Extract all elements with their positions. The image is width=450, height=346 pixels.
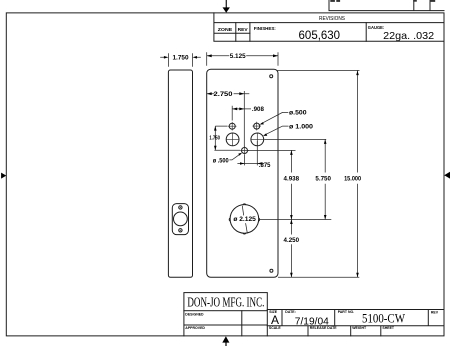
svg-text:ZONE: ZONE — [218, 27, 233, 32]
svg-text:PART NO.: PART NO. — [338, 310, 354, 314]
latch bore circle — [174, 212, 188, 226]
dimension 4.938 — [290, 150, 292, 219]
svg-text:SCALE: SCALE — [269, 326, 282, 330]
svg-text:605,630: 605,630 — [299, 28, 341, 42]
svg-text:WEIGHT: WEIGHT — [352, 326, 367, 330]
svg-text:5.750: 5.750 — [315, 176, 331, 183]
dimension 2.750 — [207, 91, 250, 147]
svg-text:.875: .875 — [259, 162, 271, 169]
svg-text:DATE:: DATE: — [285, 310, 295, 314]
plate screw hole bottom-right — [270, 269, 273, 272]
svg-text:REV: REV — [431, 311, 439, 315]
svg-text:REV: REV — [238, 27, 249, 32]
hole C 1.000 left — [226, 133, 239, 146]
cylinder hole diameter line — [242, 206, 247, 233]
frame center mark left — [1, 173, 6, 179]
svg-text:DESIGNED: DESIGNED — [185, 313, 204, 317]
revisions table — [214, 13, 444, 41]
svg-text:15.000: 15.000 — [344, 176, 361, 183]
frame center mark top — [223, 0, 230, 13]
right side extension lines — [248, 70, 360, 277]
cut-off revision history table (top edge) — [329, 0, 444, 11]
svg-text:SHEET: SHEET — [382, 326, 395, 330]
leader diameter .500 bottom-left — [229, 154, 240, 160]
latch screw hole bottom — [179, 229, 182, 232]
plate screw hole top-right — [270, 75, 273, 78]
right section grid — [267, 310, 444, 336]
svg-text:5100-CW: 5100-CW — [362, 311, 405, 325]
svg-text:GAUGE:: GAUGE: — [368, 25, 385, 30]
hole E small 0.500 bottom-center — [242, 148, 248, 154]
svg-text:FINISHES:: FINISHES: — [254, 26, 276, 31]
company name box — [184, 293, 267, 311]
cylinder hole 2.125 — [230, 205, 259, 234]
svg-text:A: A — [271, 313, 279, 327]
hole B small 0.500 top-right — [254, 123, 260, 129]
svg-text:RELEASE DATE: RELEASE DATE — [310, 326, 337, 330]
svg-text:4.250: 4.250 — [284, 237, 300, 244]
cylinder hole nubs — [229, 204, 259, 234]
leader diameter 1.000 — [265, 126, 289, 135]
latch screw center dots — [180, 207, 181, 231]
svg-text:DON-JO MFG. INC.: DON-JO MFG. INC. — [187, 296, 264, 311]
latch faceplate detail — [172, 204, 188, 235]
dimension 5.750 — [324, 139, 326, 219]
main plate outline — [207, 69, 278, 277]
leader diameter .500 top-right — [261, 112, 288, 123]
svg-text:2.750: 2.750 — [214, 91, 234, 98]
svg-text:5.125: 5.125 — [230, 53, 246, 60]
svg-text:1.750: 1.750 — [209, 136, 220, 142]
svg-text:22ga. .032: 22ga. .032 — [383, 31, 434, 42]
svg-text:4.938: 4.938 — [284, 176, 300, 183]
dimension 1.750 (side view width) — [160, 53, 201, 67]
hole centerline crosses — [226, 122, 263, 155]
svg-text:REVISIONS: REVISIONS — [319, 16, 346, 22]
svg-text:APPROVED: APPROVED — [185, 326, 205, 330]
dimension 15.000 — [357, 71, 359, 278]
frame center mark right — [444, 172, 450, 179]
svg-text:.908: .908 — [252, 106, 265, 113]
svg-text:ø 2.125: ø 2.125 — [233, 216, 256, 223]
side view outline (edge strip) — [168, 70, 192, 277]
frame center mark bottom — [222, 336, 229, 346]
dimension .908 — [232, 106, 251, 121]
svg-text:ø 1.000: ø 1.000 — [289, 123, 314, 130]
svg-text:ø.500: ø.500 — [289, 109, 307, 116]
dimension 1.750 vertical (hole spacing) — [214, 126, 240, 150]
svg-text:1.750: 1.750 — [173, 55, 190, 62]
left section rows — [184, 311, 267, 336]
dimension 5.125 (plate width) — [207, 52, 278, 66]
dimension .875 — [237, 141, 264, 165]
title block — [184, 293, 444, 336]
hole A small 0.500 top-left — [229, 123, 235, 129]
svg-text:ø .500: ø .500 — [213, 158, 230, 165]
dimension 4.250 — [290, 220, 292, 278]
hole D 1.000 right — [251, 133, 264, 146]
latch screw hole top — [179, 206, 182, 209]
